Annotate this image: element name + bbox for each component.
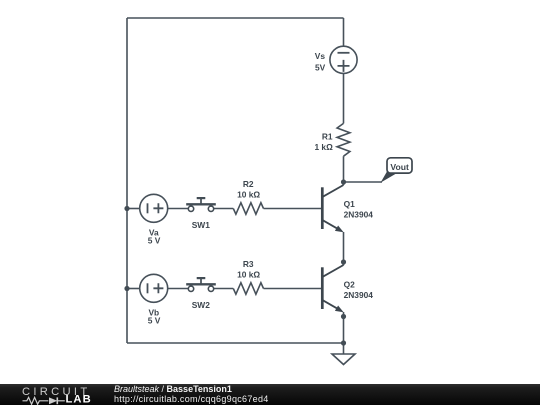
label R1 value xyxy=(314,131,333,152)
switch SW1 xyxy=(186,198,216,211)
transistor Q1 xyxy=(322,185,343,232)
resistor R1 xyxy=(337,123,350,156)
wire node to Vout flag xyxy=(344,181,383,183)
svg-text:Vout: Vout xyxy=(390,162,409,172)
wire SW2 to R3 xyxy=(214,288,234,290)
wire Q1 emitter to Q2 collector xyxy=(343,232,345,265)
label R3 value xyxy=(237,259,260,279)
voltage source Vb xyxy=(140,274,168,302)
resistor R3 xyxy=(233,283,263,295)
svg-text:10 kΩ: 10 kΩ xyxy=(237,189,260,199)
svg-text:5V: 5V xyxy=(315,62,326,72)
node Q1-Q2 junction xyxy=(341,259,346,264)
net flag Vout xyxy=(381,158,413,183)
wire top rail xyxy=(127,17,344,19)
node bottom rail junction xyxy=(341,340,346,345)
svg-text:Vs: Vs xyxy=(315,51,326,61)
svg-text:LAB: LAB xyxy=(66,394,92,405)
svg-text:Q2: Q2 xyxy=(344,279,356,289)
svg-text:2N3904: 2N3904 xyxy=(344,210,374,220)
label Q2 value xyxy=(344,279,374,300)
wire R3 to Q2 base xyxy=(264,288,322,290)
svg-text:5 V: 5 V xyxy=(148,316,161,326)
svg-text:SW2: SW2 xyxy=(192,300,210,310)
svg-text:SW1: SW1 xyxy=(192,220,210,230)
svg-text:10 kΩ: 10 kΩ xyxy=(237,269,260,279)
svg-text:http://circuitlab.com/cqq6g9qc: http://circuitlab.com/cqq6g9qc67ed4 xyxy=(114,394,269,404)
voltage source Va xyxy=(140,194,168,222)
node Va junction xyxy=(124,206,129,211)
svg-text:Braultsteak / BasseTension1: Braultsteak / BasseTension1 xyxy=(114,384,232,394)
node Q2 emitter junction xyxy=(341,314,346,319)
wire R1 to node xyxy=(343,156,345,185)
wire Vb node to source xyxy=(127,288,140,290)
wire Vs top lead xyxy=(343,18,345,46)
wire left rail xyxy=(126,18,128,343)
wire Va to SW1 xyxy=(168,208,189,210)
ground xyxy=(332,354,355,365)
node Vb junction xyxy=(124,286,129,291)
wire Q2 emitter to ground xyxy=(343,312,345,354)
resistor R2 xyxy=(233,203,263,215)
wire Vs to R1 xyxy=(343,73,345,123)
svg-text:R1: R1 xyxy=(322,131,333,141)
logo resistor-diode glyph xyxy=(23,397,65,404)
wire bottom rail xyxy=(127,342,344,344)
switch SW2 xyxy=(186,278,216,291)
wire R2 to Q1 base xyxy=(264,208,322,210)
label Va value xyxy=(148,227,161,245)
svg-text:5 V: 5 V xyxy=(148,236,161,246)
transistor Q2 xyxy=(322,265,343,312)
wire SW1 to R2 xyxy=(214,208,234,210)
svg-text:Q1: Q1 xyxy=(344,199,356,209)
wire Va node to source xyxy=(127,208,140,210)
label R2 value xyxy=(237,179,260,199)
svg-text:2N3904: 2N3904 xyxy=(344,290,374,300)
footer bar xyxy=(0,384,540,405)
svg-text:R2: R2 xyxy=(243,179,254,189)
label Vb value xyxy=(148,307,161,325)
label Vs value xyxy=(315,51,326,72)
svg-text:R3: R3 xyxy=(243,259,254,269)
node Vout junction xyxy=(341,179,346,184)
svg-text:1 kΩ: 1 kΩ xyxy=(314,142,333,152)
wire Vb to SW2 xyxy=(168,288,189,290)
label Q1 value xyxy=(344,199,374,220)
voltage source Vs xyxy=(330,46,357,73)
